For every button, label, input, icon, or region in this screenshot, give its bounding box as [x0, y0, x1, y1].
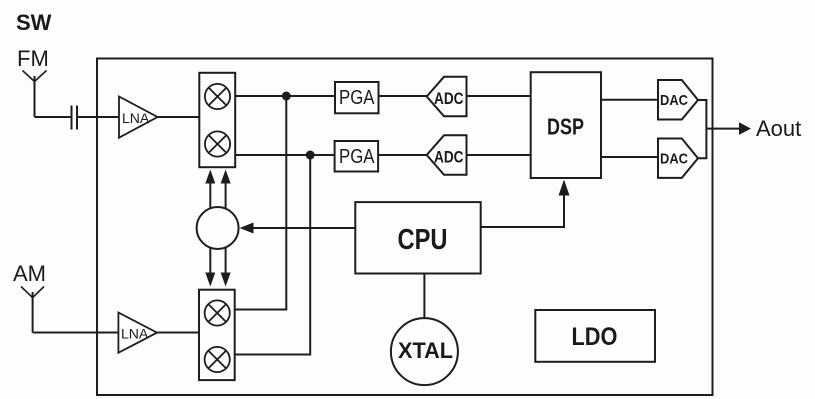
FM mixer block	[199, 73, 235, 167]
XTAL circle	[391, 318, 458, 385]
DSP box	[531, 72, 601, 178]
wire junction1 down to AM mixer I output	[235, 96, 287, 310]
mixer FM Q	[205, 131, 230, 156]
DAC pentagon 2	[658, 139, 698, 178]
wire AM antenna to AM LNA	[33, 332, 119, 334]
svg-text:ADC: ADC	[434, 148, 464, 167]
svg-text:XTAL: XTAL	[398, 338, 453, 363]
LO phase splitter circle	[197, 207, 239, 249]
svg-text:ADC: ADC	[434, 89, 464, 108]
svg-text:DAC: DAC	[660, 151, 688, 168]
wire LO to FM mixer (left line with up arrow)	[205, 170, 215, 209]
svg-text:SW: SW	[16, 10, 52, 35]
chip boundary box	[97, 59, 713, 396]
capacitor C1	[72, 106, 78, 130]
svg-text:FM: FM	[17, 46, 49, 71]
wire FM mixer Q to PGA2	[235, 154, 335, 156]
AM mixer block	[199, 290, 235, 380]
wire LO to AM mixer (right line with down arrow)	[221, 247, 231, 287]
svg-text:CPU: CPU	[398, 224, 448, 256]
PGA box 1	[335, 82, 379, 113]
svg-text:LNA: LNA	[121, 326, 149, 342]
wire FM mixer I to PGA1	[235, 95, 335, 97]
wire DSP to DAC1	[601, 99, 658, 101]
LDO box	[535, 310, 655, 362]
wire CPU to LO circle with left arrow	[240, 223, 356, 234]
svg-text:LNA: LNA	[122, 110, 150, 126]
svg-text:PGA: PGA	[339, 87, 375, 109]
ADC pentagon 1	[427, 77, 467, 117]
amplifier FM LNA	[119, 97, 158, 138]
arrow Aout	[739, 122, 751, 135]
wire ADC1 to DSP	[467, 95, 531, 97]
PGA box 2	[335, 141, 379, 172]
antenna (FM)	[23, 71, 47, 118]
amplifier AM LNA	[118, 313, 157, 353]
svg-text:PGA: PGA	[339, 146, 375, 168]
wire LO to AM mixer (left line with down arrow)	[205, 247, 215, 286]
antenna (AM)	[21, 287, 44, 333]
svg-text:LDO: LDO	[572, 323, 618, 351]
node junction dot 2	[306, 151, 315, 160]
wire CPU to XTAL	[423, 274, 425, 319]
wire PGA1 to ADC1	[379, 95, 427, 97]
mixer FM I	[205, 84, 230, 109]
mixer AM Q	[205, 347, 230, 372]
DAC pentagon 1	[658, 80, 698, 120]
wire junction2 down to AM mixer Q output	[235, 155, 311, 355]
svg-text:DSP: DSP	[547, 114, 584, 140]
svg-text:AM: AM	[13, 261, 46, 286]
node junction dot 1	[282, 92, 291, 101]
wire capacitor to FM LNA	[78, 116, 119, 118]
mixer AM I	[205, 300, 230, 325]
svg-text:Aout: Aout	[756, 116, 801, 141]
wire DAC merge	[698, 100, 739, 158]
wire FM LNA to FM mixer block	[158, 116, 200, 118]
CPU box	[355, 202, 480, 273]
ADC pentagon 2	[427, 135, 467, 175]
wire ADC2 to DSP	[467, 154, 531, 156]
wire PGA2 to ADC2	[378, 154, 427, 156]
wire AM LNA to AM mixer block	[157, 332, 199, 334]
wire DSP to DAC2	[601, 156, 658, 158]
wire LO to FM mixer (right line with up arrow)	[221, 170, 231, 210]
svg-text:DAC: DAC	[660, 92, 688, 109]
wire antenna to capacitor	[35, 116, 71, 118]
wire CPU to DSP with up arrow	[481, 180, 570, 228]
